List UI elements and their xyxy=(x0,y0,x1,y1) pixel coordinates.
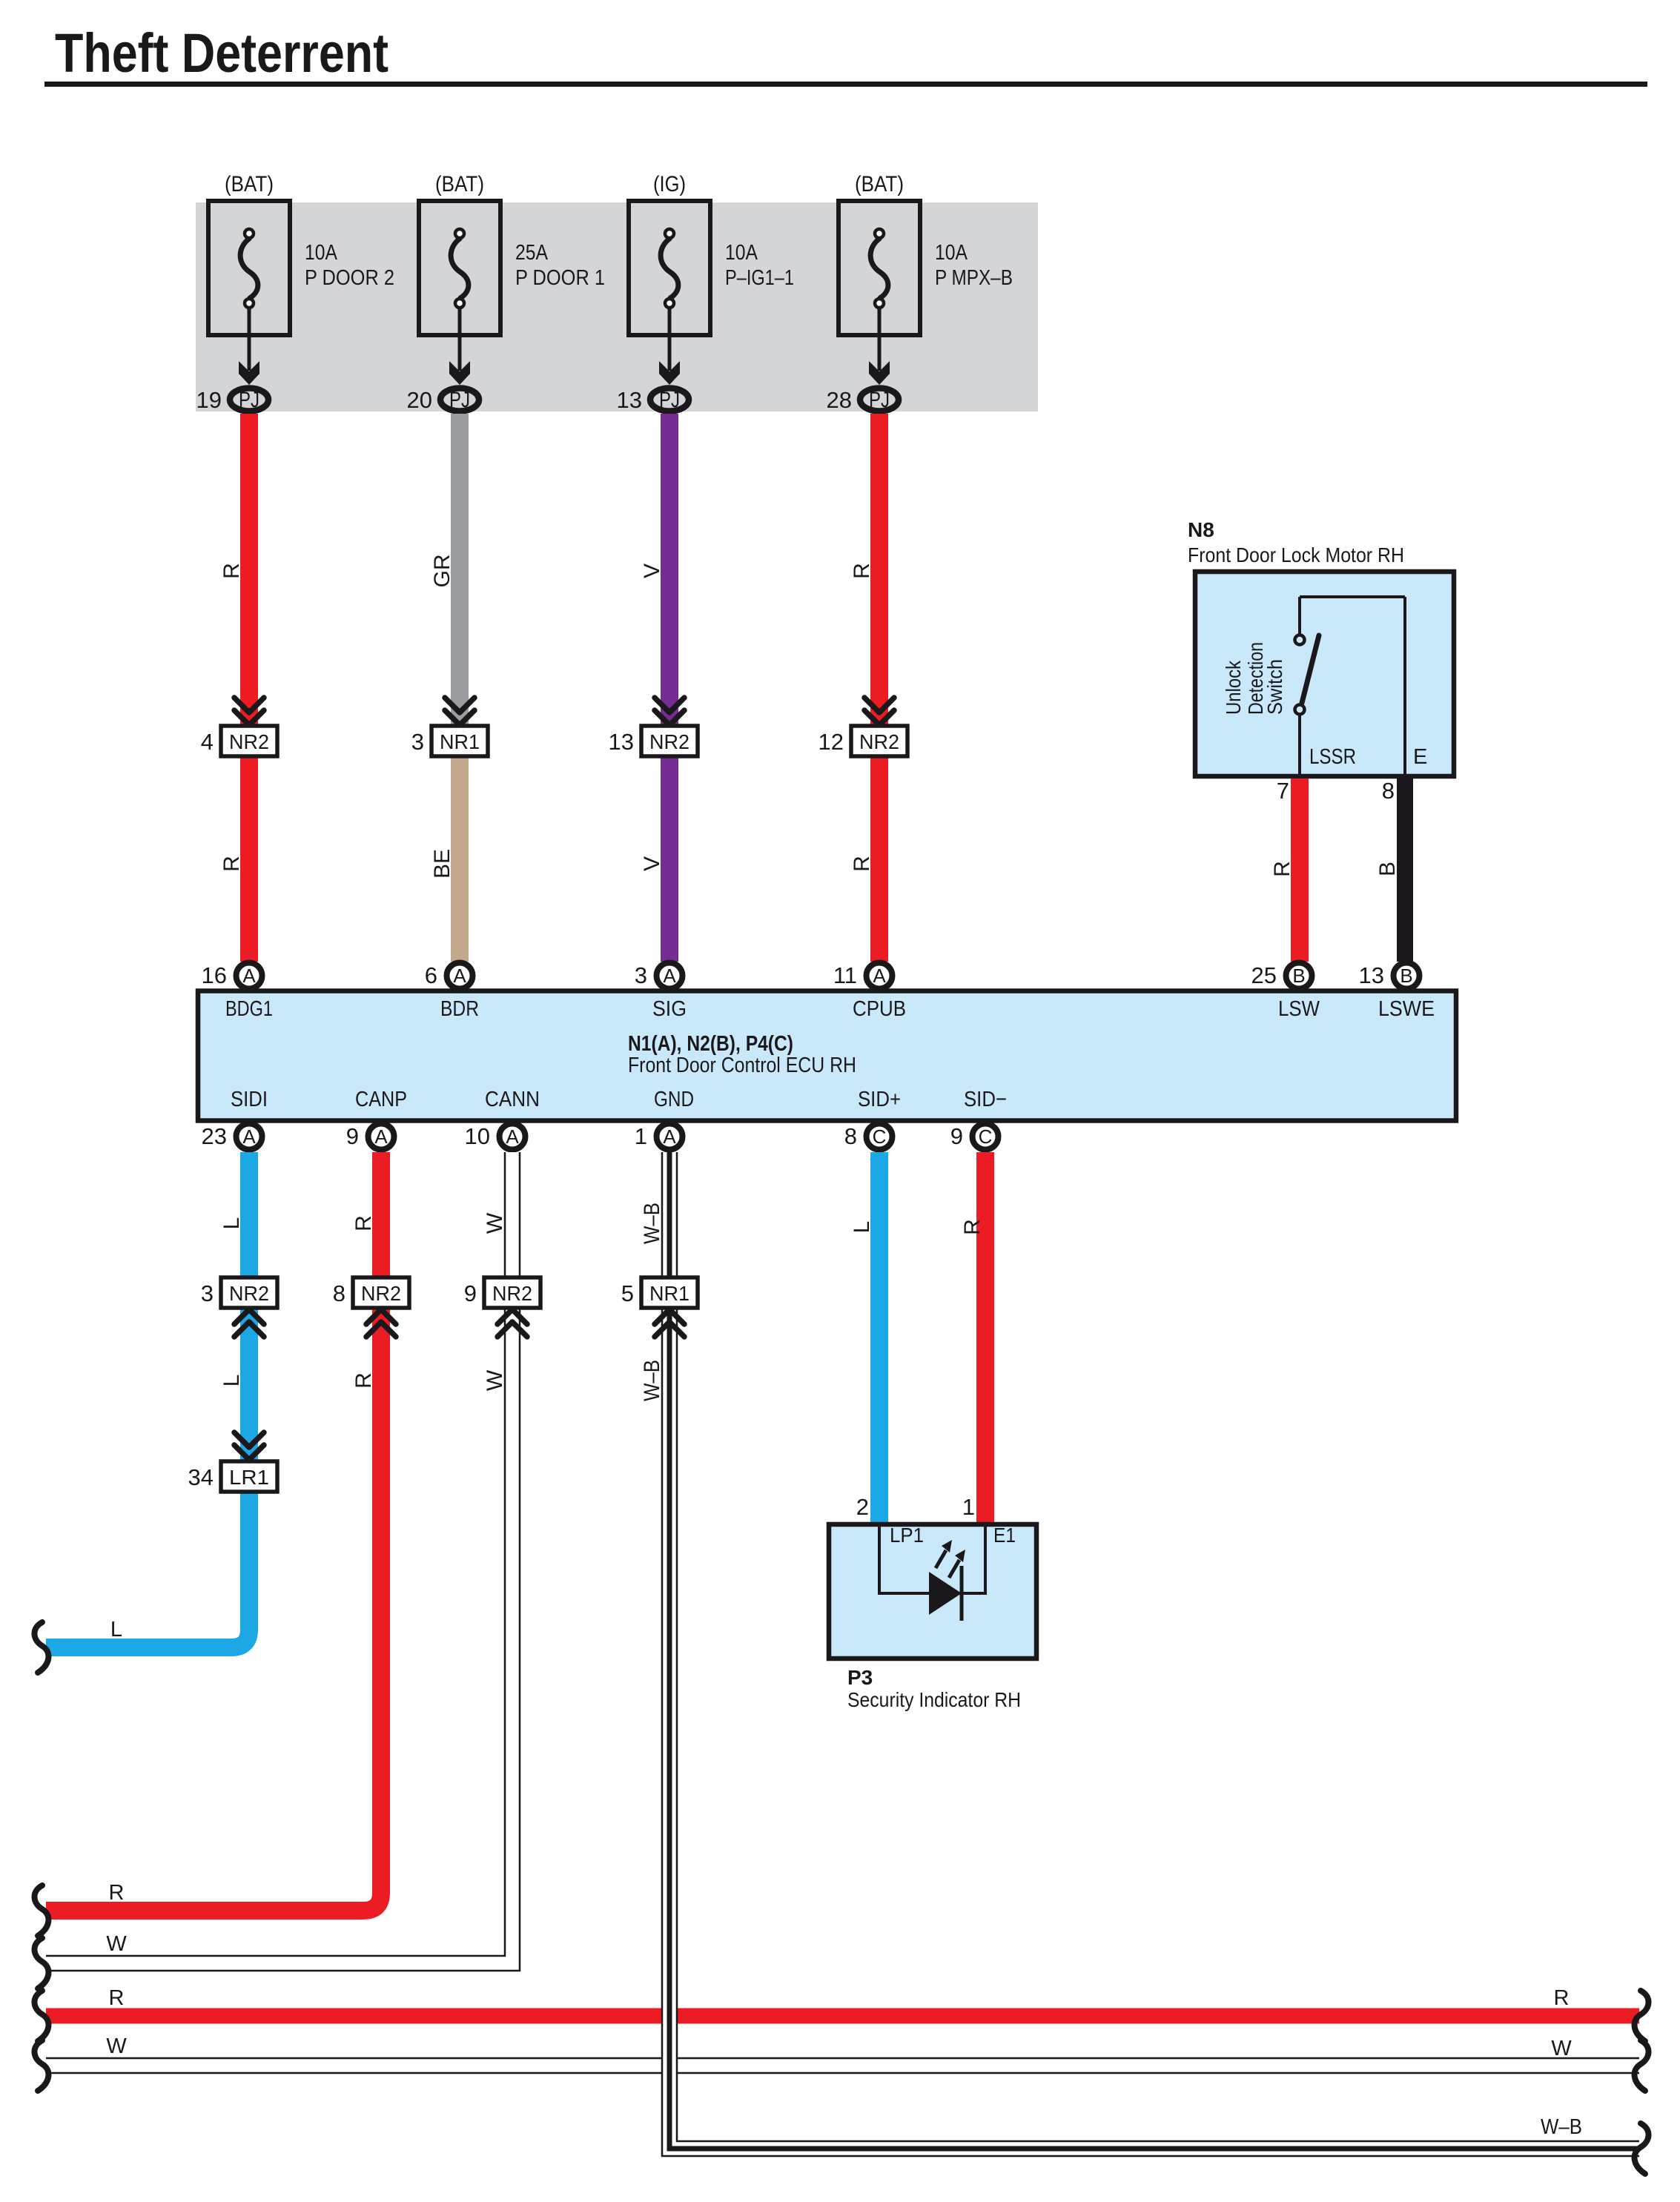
fuse F3 10A P–IG1–1 ((IG)) xyxy=(629,172,794,335)
svg-text:NR2: NR2 xyxy=(859,730,899,753)
svg-text:3: 3 xyxy=(635,962,647,988)
svg-text:3: 3 xyxy=(411,729,424,755)
wire W from ECU pin 10 (CANN) to NR2 pin 9 xyxy=(483,1152,520,1277)
svg-text:LSW: LSW xyxy=(1278,997,1320,1021)
svg-text:SIG: SIG xyxy=(652,997,687,1021)
svg-text:R: R xyxy=(109,1986,125,2010)
connector NR2 pin 9 xyxy=(464,1277,540,1337)
svg-text:Unlock: Unlock xyxy=(1222,660,1245,715)
continuation braces (R long) xyxy=(34,1991,1648,2041)
wire V from NR2 to ECU pin 3 xyxy=(640,755,669,962)
node B pin 25 (ECU top) xyxy=(1251,962,1312,989)
svg-text:W: W xyxy=(483,1369,507,1391)
pin name SIDI xyxy=(231,1088,268,1111)
svg-text:PJ: PJ xyxy=(659,388,680,412)
svg-text:8: 8 xyxy=(333,1280,345,1306)
svg-text:B: B xyxy=(1375,862,1400,876)
svg-text:CPUB: CPUB xyxy=(853,997,906,1021)
wire L from NR2 to LR1 pin 34 xyxy=(219,1308,249,1461)
wire R continuation (long horizontal) xyxy=(46,1986,1639,2016)
connector NR2 pin 8 xyxy=(333,1277,409,1337)
pin name CPUB xyxy=(853,997,906,1021)
svg-text:P–IG1–1: P–IG1–1 xyxy=(725,266,794,290)
node A pin 23 (ECU bottom) xyxy=(202,1123,262,1150)
pin name CANP xyxy=(355,1088,407,1111)
svg-text:SID+: SID+ xyxy=(858,1088,901,1111)
unlock detection switch (inside N8) xyxy=(1222,597,1427,774)
svg-text:N8: N8 xyxy=(1188,518,1214,541)
svg-text:10A: 10A xyxy=(935,241,968,265)
svg-text:12: 12 xyxy=(818,729,844,755)
svg-text:R: R xyxy=(219,563,244,579)
wire R from NR2 to ECU pin 16 xyxy=(219,755,249,962)
svg-text:R: R xyxy=(960,1219,985,1235)
svg-text:W: W xyxy=(483,1212,507,1234)
svg-text:E1: E1 xyxy=(993,1524,1016,1547)
svg-text:8: 8 xyxy=(844,1123,857,1149)
svg-text:11: 11 xyxy=(833,962,857,988)
svg-text:28: 28 xyxy=(827,387,852,413)
svg-text:P DOOR 2: P DOOR 2 xyxy=(305,266,394,290)
fuse F2 25A P DOOR 1 ((BAT)) xyxy=(419,172,605,335)
svg-text:Security Indicator RH: Security Indicator RH xyxy=(847,1688,1021,1711)
svg-text:C: C xyxy=(873,1125,887,1148)
svg-text:LSSR: LSSR xyxy=(1309,745,1356,769)
node A pin 11 (ECU top) xyxy=(833,962,893,989)
svg-text:P DOOR 1: P DOOR 1 xyxy=(515,266,605,290)
svg-text:23: 23 xyxy=(202,1123,227,1149)
arrow from fuse F2 to junction connector PJ xyxy=(449,308,470,385)
svg-text:W–B: W–B xyxy=(640,1203,664,1244)
LED LP1 (inside P3) xyxy=(879,1527,985,1621)
pin name SID− xyxy=(964,1088,1007,1111)
node B pin 13 (ECU top) xyxy=(1359,962,1420,989)
wire R from PJ to NR2 pin 4 xyxy=(219,414,249,726)
svg-text:NR2: NR2 xyxy=(649,730,689,753)
svg-text:W: W xyxy=(106,1932,127,1956)
connector LR1 pin 34 xyxy=(188,1432,277,1492)
component N8 Front Door Lock Motor RH xyxy=(1188,518,1454,776)
svg-text:7: 7 xyxy=(1277,778,1289,804)
svg-text:V: V xyxy=(640,563,664,578)
svg-text:13: 13 xyxy=(1359,962,1384,988)
svg-text:R: R xyxy=(109,1881,125,1905)
wire W continuation (long horizontal) xyxy=(46,2034,1639,2073)
svg-text:R: R xyxy=(1270,861,1294,877)
svg-text:9: 9 xyxy=(346,1123,359,1149)
svg-text:A: A xyxy=(242,1125,256,1148)
node A pin 10 (ECU bottom) xyxy=(465,1123,526,1150)
wire R from NR2 (CANP) to left continuation xyxy=(46,1308,381,1911)
svg-text:BDG1: BDG1 xyxy=(225,997,273,1021)
connector NR1 pin 3 xyxy=(411,698,488,756)
svg-text:25A: 25A xyxy=(515,241,549,265)
svg-text:L: L xyxy=(110,1618,122,1641)
svg-text:10: 10 xyxy=(465,1123,490,1149)
pin name BDR xyxy=(440,997,479,1021)
arrow from fuse F4 to junction connector PJ xyxy=(869,308,890,385)
svg-text:Front Door Lock Motor RH: Front Door Lock Motor RH xyxy=(1188,543,1404,566)
wire W from NR2 (CANN) to left continuation xyxy=(46,1308,520,1971)
svg-text:LR1: LR1 xyxy=(229,1466,269,1489)
node A pin 3 (ECU top) xyxy=(635,962,683,989)
svg-text:V: V xyxy=(640,856,664,871)
svg-text:A: A xyxy=(374,1125,388,1148)
svg-text:BE: BE xyxy=(430,849,454,879)
connector NR1 pin 5 xyxy=(621,1277,698,1337)
wire R from N8 pin 7 (LSSR) to ECU pin 25 xyxy=(1270,778,1300,962)
svg-text:R: R xyxy=(351,1372,376,1389)
svg-text:A: A xyxy=(663,1125,676,1148)
connector NR2 pin 3 xyxy=(201,1277,277,1337)
wire V from PJ to NR2 pin 13 xyxy=(640,414,669,726)
svg-text:SIDI: SIDI xyxy=(231,1088,268,1111)
pin name SIG xyxy=(652,997,687,1021)
connector NR2 pin 4 xyxy=(201,698,277,756)
node A pin 1 (ECU bottom) xyxy=(635,1123,683,1150)
wire W-B from ECU pin 1 (GND) to NR1 pin 5 xyxy=(640,1152,677,1277)
svg-text:W–B: W–B xyxy=(640,1360,664,1401)
connector NR2 pin 12 xyxy=(818,698,907,756)
svg-text:Front Door Control ECU RH: Front Door Control ECU RH xyxy=(628,1054,856,1077)
svg-text:B: B xyxy=(1292,965,1305,987)
wire R from ECU pin 9 (SID-) to P3 pin 1 xyxy=(960,1152,985,1524)
pin name GND xyxy=(654,1088,694,1111)
svg-text:P MPX–B: P MPX–B xyxy=(935,266,1013,290)
svg-text:B: B xyxy=(1400,965,1412,987)
wire R from PJ to NR2 pin 12 xyxy=(850,414,879,726)
svg-text:L: L xyxy=(219,1375,244,1387)
svg-text:NR2: NR2 xyxy=(361,1282,401,1305)
continuation brace (W, left) xyxy=(34,1938,48,1988)
svg-text:P3: P3 xyxy=(847,1666,873,1689)
svg-text:NR1: NR1 xyxy=(649,1282,689,1305)
continuation braces (W long) xyxy=(34,2040,1648,2091)
pin name CANN xyxy=(485,1088,540,1111)
svg-text:A: A xyxy=(506,1125,519,1148)
wire R from ECU pin 9 (CANP) to NR2 pin 8 xyxy=(351,1152,381,1277)
svg-text:A: A xyxy=(242,965,256,987)
node A pin 9 (ECU bottom) xyxy=(346,1123,394,1150)
svg-text:C: C xyxy=(979,1125,993,1148)
svg-text:4: 4 xyxy=(201,729,214,755)
svg-text:16: 16 xyxy=(202,962,227,988)
svg-text:10A: 10A xyxy=(725,241,758,265)
svg-text:13: 13 xyxy=(609,729,634,755)
svg-text:8: 8 xyxy=(1382,778,1395,804)
svg-text:6: 6 xyxy=(425,962,437,988)
svg-text:1: 1 xyxy=(635,1123,647,1149)
connector PJ pin 20 xyxy=(407,387,479,413)
svg-text:R: R xyxy=(850,563,874,579)
svg-text:R: R xyxy=(351,1215,376,1231)
svg-text:(BAT): (BAT) xyxy=(855,172,904,196)
wire R from NR2 to ECU pin 11 xyxy=(850,755,879,962)
connector PJ pin 19 xyxy=(196,387,268,413)
svg-text:R: R xyxy=(1554,1986,1570,2010)
svg-text:19: 19 xyxy=(196,387,222,413)
svg-text:PJ: PJ xyxy=(239,388,259,412)
svg-text:NR2: NR2 xyxy=(229,1282,269,1305)
svg-text:PJ: PJ xyxy=(449,388,470,412)
svg-text:(IG): (IG) xyxy=(653,172,686,196)
wire B from N8 pin 8 (E) to ECU pin 13 xyxy=(1375,778,1405,962)
svg-text:2: 2 xyxy=(856,1494,869,1520)
wire L from ECU pin 8 (SID+) to P3 pin 2 xyxy=(850,1152,879,1524)
svg-text:3: 3 xyxy=(201,1280,214,1306)
svg-text:1: 1 xyxy=(962,1494,975,1520)
svg-text:GND: GND xyxy=(654,1088,694,1111)
svg-text:R: R xyxy=(219,856,244,872)
connector PJ pin 28 xyxy=(827,387,899,413)
wire BE from NR1 to ECU pin 6 xyxy=(430,755,460,962)
arrow from fuse F3 to junction connector PJ xyxy=(659,308,680,385)
wire GR from PJ to NR1 pin 3 xyxy=(430,414,460,726)
svg-text:25: 25 xyxy=(1251,962,1277,988)
continuation brace (W-B, right) xyxy=(1635,2123,1649,2174)
svg-text:BDR: BDR xyxy=(440,997,479,1021)
continuation brace (L, left) xyxy=(34,1622,48,1673)
svg-text:W: W xyxy=(106,2034,127,2058)
arrow from fuse F1 to junction connector PJ xyxy=(239,308,259,385)
svg-text:PJ: PJ xyxy=(869,388,890,412)
svg-text:10A: 10A xyxy=(305,241,338,265)
svg-text:SID−: SID− xyxy=(964,1088,1007,1111)
fuse F4 10A P MPX–B ((BAT)) xyxy=(839,172,1013,335)
svg-text:W: W xyxy=(1551,2037,1572,2060)
svg-text:LSWE: LSWE xyxy=(1378,997,1435,1021)
wire L from ECU pin 23 (SIDI) to NR2 pin 3 xyxy=(219,1152,249,1277)
ECU N1(A),N2(B),P4(C) Front Door Control ECU RH xyxy=(198,991,1456,1121)
svg-text:NR2: NR2 xyxy=(492,1282,532,1305)
title: Theft Deterrent xyxy=(44,22,1647,87)
node A pin 16 (ECU top) xyxy=(202,962,262,989)
svg-text:Theft Deterrent: Theft Deterrent xyxy=(55,22,388,84)
node C pin 9 (ECU bottom) xyxy=(950,1123,999,1150)
svg-text:N1(A), N2(B), P4(C): N1(A), N2(B), P4(C) xyxy=(628,1032,793,1056)
wire L from LR1 to left continuation xyxy=(46,1492,249,1647)
node A pin 6 (ECU top) xyxy=(425,962,473,989)
component P3 Security Indicator RH xyxy=(829,1524,1036,1711)
svg-text:R: R xyxy=(850,856,874,872)
svg-text:A: A xyxy=(453,965,466,987)
svg-text:A: A xyxy=(873,965,886,987)
svg-text:34: 34 xyxy=(188,1464,214,1490)
svg-text:CANN: CANN xyxy=(485,1088,540,1111)
node C pin 8 (ECU bottom) xyxy=(844,1123,893,1150)
svg-text:13: 13 xyxy=(617,387,642,413)
continuation brace (R, left) xyxy=(34,1885,48,1936)
svg-text:E: E xyxy=(1413,745,1427,769)
svg-text:Switch: Switch xyxy=(1263,659,1286,715)
svg-text:9: 9 xyxy=(950,1123,963,1149)
connector PJ pin 13 xyxy=(617,387,689,413)
connector NR2 pin 13 xyxy=(609,698,698,756)
pin name BDG1 xyxy=(225,997,273,1021)
svg-text:NR1: NR1 xyxy=(440,730,480,753)
svg-text:(BAT): (BAT) xyxy=(225,172,274,196)
fuse F1 10A P DOOR 2 ((BAT)) xyxy=(208,172,394,335)
pin name LSWE xyxy=(1378,997,1435,1021)
svg-text:L: L xyxy=(850,1221,874,1234)
svg-text:(BAT): (BAT) xyxy=(435,172,484,196)
svg-text:GR: GR xyxy=(430,555,454,588)
svg-text:NR2: NR2 xyxy=(229,730,269,753)
svg-text:5: 5 xyxy=(621,1280,634,1306)
wire W-B from NR1 (GND) to right continuation xyxy=(640,1308,1639,2156)
junction block panel (gray) xyxy=(196,202,1038,411)
svg-text:LP1: LP1 xyxy=(890,1524,924,1547)
svg-text:CANP: CANP xyxy=(355,1088,407,1111)
svg-text:9: 9 xyxy=(464,1280,477,1306)
svg-text:L: L xyxy=(219,1217,244,1230)
svg-text:20: 20 xyxy=(407,387,432,413)
svg-text:A: A xyxy=(663,965,676,987)
pin name SID+ xyxy=(858,1088,901,1111)
pin name LSW xyxy=(1278,997,1320,1021)
svg-text:W–B: W–B xyxy=(1541,2115,1582,2139)
